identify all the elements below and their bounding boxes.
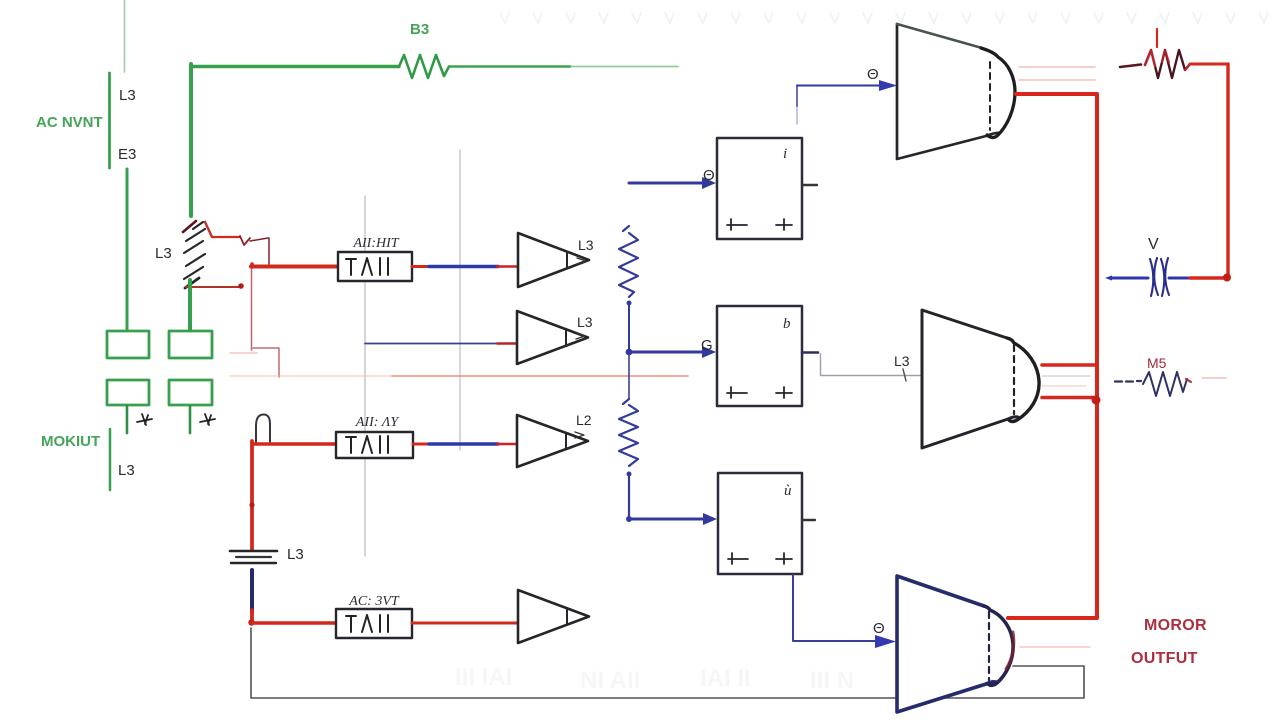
resistor chain top wire (629, 182, 703, 185)
resistor B3 (399, 55, 449, 78)
buffer A2 (517, 311, 588, 364)
faint top artifact marks (500, 13, 1268, 23)
svg-text:AC NVNT: AC NVNT (36, 114, 103, 131)
svg-text:Θ: Θ (873, 620, 885, 637)
faint H2 outputs (1042, 375, 1090, 377)
relay K3 (718, 473, 802, 574)
horn H1 outputs pink (1019, 66, 1095, 68)
horn H3 navy (897, 576, 996, 712)
pin K2 out (802, 351, 818, 354)
svg-text:L3: L3 (578, 237, 594, 253)
svg-text:b: b (783, 316, 791, 332)
svg-text:L3: L3 (118, 462, 135, 479)
wire green top horizontal (191, 65, 399, 68)
faint column line x365 (364, 196, 366, 556)
wire maroon drop (251, 268, 253, 350)
horn H1 (897, 24, 1000, 159)
wire red to U3 (250, 610, 254, 622)
wire blue to horn H1 (797, 85, 880, 87)
svg-text:L3: L3 (119, 87, 136, 104)
relay K2 (717, 306, 802, 406)
wire node (628, 303, 630, 349)
wire red feed to U1 (250, 264, 254, 267)
svg-text:Θ: Θ (703, 167, 715, 184)
svg-text:B3: B3 (410, 21, 429, 38)
svg-text:OUTFUT: OUTFUT (1131, 650, 1198, 667)
red bus (1008, 94, 1097, 618)
contact box B (169, 331, 212, 358)
svg-text:III IAI: III IAI (455, 664, 512, 691)
resistor R2 (619, 226, 638, 297)
dart symbol D (200, 414, 215, 425)
hook wire to battery (256, 414, 270, 444)
green below switch (188, 280, 192, 332)
red stub H2 bottom (1042, 396, 1097, 400)
resistor R5 top right (1156, 29, 1158, 47)
svg-text:L3: L3 (155, 245, 172, 262)
svg-text:L3: L3 (894, 353, 910, 369)
switch S1 hatch (184, 222, 205, 279)
timer U3 (336, 609, 412, 638)
svg-text:III N: III N (810, 667, 854, 694)
stub below D (189, 406, 192, 433)
salmon horizontal line (230, 375, 392, 377)
wire K2 to horn H2 gray (821, 354, 922, 376)
relay K1 (717, 138, 802, 239)
wire U1 to A1 (412, 265, 431, 268)
ground return wire (251, 628, 1084, 698)
svg-text:AC: 3VT: AC: 3VT (348, 594, 400, 609)
battery L3 (230, 550, 277, 553)
svg-text:V: V (1148, 236, 1159, 253)
svg-text:Θ: Θ (867, 66, 879, 83)
svg-text:L3: L3 (577, 314, 593, 330)
faint column line x460 (459, 150, 461, 450)
wire switch arm red (212, 236, 240, 238)
resistor R3 (619, 399, 638, 466)
AC source bar (108, 73, 111, 168)
wire red battery feed (250, 441, 254, 549)
wire to K2 (629, 351, 703, 354)
contact box D (169, 380, 212, 405)
svg-text:G: G (701, 337, 713, 354)
wire pink stub (230, 352, 257, 354)
svg-text:ù: ù (784, 483, 792, 499)
wire green after B3 fading (449, 65, 570, 67)
svg-text:M5: M5 (1147, 355, 1167, 371)
red stub H2 top (1042, 363, 1097, 367)
wire maroon step down (253, 348, 279, 377)
wire chain mid (628, 355, 630, 399)
wire red U2 input (253, 442, 336, 445)
wire green MOKIUT (109, 429, 112, 490)
pin K1 out (802, 184, 817, 186)
wire U2 to A3 (413, 443, 431, 446)
wire switch lower contact (186, 286, 240, 288)
svg-text:IAI II: IAI II (700, 665, 751, 692)
wire to K3 (629, 518, 704, 521)
wire U3 to A4 (412, 622, 517, 625)
svg-text:NI AII: NI AII (580, 667, 640, 694)
pink H3 output (1020, 646, 1090, 648)
svg-text:L2: L2 (576, 412, 592, 428)
svg-text:E3: E3 (118, 146, 136, 163)
svg-text:MOROR: MOROR (1144, 617, 1207, 634)
stub below C (126, 406, 129, 433)
buffer A4 (518, 590, 589, 643)
dart symbol C (137, 414, 152, 425)
wire to A2 (365, 343, 498, 345)
pin K3 out (802, 519, 815, 521)
svg-text:i: i (783, 146, 787, 162)
svg-text:AII:HIT: AII:HIT (352, 236, 399, 251)
svg-text:MOKIUT: MOKIUT (41, 433, 100, 450)
contact box A (terminal block) (107, 331, 149, 358)
contact box C (107, 380, 149, 405)
wire navy below battery (250, 570, 254, 612)
wire K3 to horn H3 (793, 575, 876, 641)
timer U2 (336, 432, 413, 458)
timer U1 (338, 252, 412, 281)
wire AC down (126, 169, 129, 331)
buffer A3 (517, 415, 588, 467)
wire green main riser (189, 64, 193, 216)
svg-text:AII: ΛY: AII: ΛY (355, 415, 400, 430)
wire chain bottom (628, 474, 630, 517)
wire top feed green fading (124, 0, 126, 72)
buffer A1 (518, 233, 589, 287)
svg-text:L3: L3 (287, 546, 304, 563)
horn H2 (922, 310, 1018, 448)
wire R5 to bus right (1190, 63, 1228, 66)
